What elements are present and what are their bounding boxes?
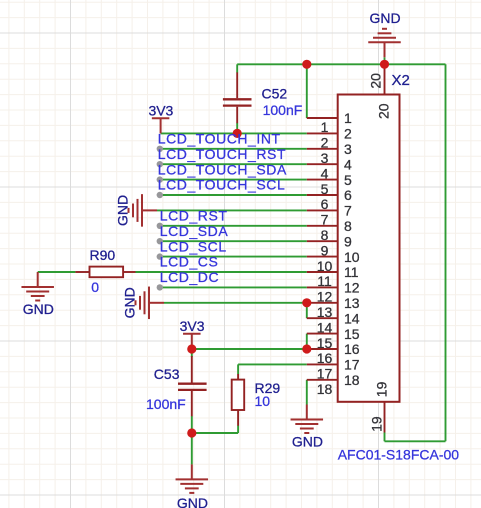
wire R29 bottom wire xyxy=(237,426,239,434)
wire elbow pin 15 to pin 16 xyxy=(306,334,308,349)
wire row 16 3V3 net xyxy=(192,348,307,350)
ground GND left of R90 xyxy=(21,272,54,301)
X2 pin 1 xyxy=(307,110,352,135)
X2 pin 17 xyxy=(307,357,360,382)
X2 pin 8 xyxy=(307,218,352,243)
wire end dot row 12 xyxy=(157,284,163,290)
wire right vertical xyxy=(445,64,447,441)
svg-text:3V3: 3V3 xyxy=(148,103,173,119)
svg-text:12: 12 xyxy=(344,280,360,296)
wire pin 18 elbow to GND xyxy=(306,380,308,405)
power flag 3V3 row 16 xyxy=(183,334,201,349)
junction row 16 at pin elbow xyxy=(302,344,311,353)
wire end dot row 3 xyxy=(157,146,163,152)
wire end dot row 5 xyxy=(157,176,163,182)
resistor R90 xyxy=(75,267,135,278)
svg-text:18: 18 xyxy=(344,372,360,388)
wire row 8 LCD_RST xyxy=(160,225,307,227)
X2 pin 11 xyxy=(307,264,359,289)
svg-text:LCD_TOUCH_INT: LCD_TOUCH_INT xyxy=(158,131,281,147)
wire C53 bottom wire xyxy=(191,416,193,464)
svg-text:LCD_TOUCH_RST: LCD_TOUCH_RST xyxy=(158,146,286,162)
ground GND top (pin 20 net) xyxy=(368,29,401,58)
ground GND row 13 (rotated) xyxy=(136,287,165,320)
X2 pin 3 xyxy=(307,141,352,166)
svg-text:2: 2 xyxy=(344,126,352,142)
wire top GND flag lead xyxy=(384,57,386,64)
ground GND bottom below C53 xyxy=(176,464,209,493)
wire GND top horizontal xyxy=(237,63,445,65)
wire row 10 LCD_SCL xyxy=(160,256,307,258)
svg-text:17: 17 xyxy=(344,357,360,373)
svg-text:3: 3 xyxy=(344,141,352,157)
wire end dot row 4 xyxy=(157,161,163,167)
X2 pin 19 (bottom) xyxy=(369,381,390,432)
svg-text:1: 1 xyxy=(344,110,352,126)
svg-text:GND: GND xyxy=(115,195,131,226)
wire row 17 R29 net xyxy=(238,363,307,365)
svg-text:11: 11 xyxy=(344,264,359,280)
svg-text:8: 8 xyxy=(344,218,352,234)
svg-text:100nF: 100nF xyxy=(263,102,303,118)
svg-text:LCD_DC: LCD_DC xyxy=(160,269,219,285)
svg-text:15: 15 xyxy=(344,326,360,342)
svg-text:GND: GND xyxy=(177,495,208,508)
X2 pin 18 xyxy=(307,372,360,397)
svg-text:LCD_CS: LCD_CS xyxy=(160,254,219,270)
X2 pin 15 xyxy=(307,326,360,351)
resistor R29 xyxy=(232,374,245,426)
X2 pin 20 (top) xyxy=(367,64,391,119)
wire row 7 GND xyxy=(157,209,307,211)
junction C53 bottom xyxy=(187,428,196,437)
wire elbow pin 13 to pin 14 xyxy=(306,303,308,318)
wire end dot row 10 xyxy=(157,253,163,259)
wire end dot row 8 xyxy=(157,223,163,229)
wire row 13 GND xyxy=(164,302,307,304)
svg-text:5: 5 xyxy=(344,172,352,188)
svg-text:0: 0 xyxy=(91,279,99,295)
ground GND row 7 (rotated) xyxy=(129,194,158,227)
ground GND below pin 18 xyxy=(291,405,324,434)
svg-text:7: 7 xyxy=(344,203,352,219)
X2 pin 10 xyxy=(307,249,360,274)
svg-text:100nF: 100nF xyxy=(146,396,186,412)
wire row 11 R90 to pin 11 xyxy=(136,271,307,273)
X2 pin 2 xyxy=(307,126,352,151)
svg-text:13: 13 xyxy=(344,295,360,311)
junction GND top wire at pin 20 xyxy=(380,60,389,69)
svg-text:14: 14 xyxy=(344,310,360,326)
svg-text:LCD_TOUCH_SDA: LCD_TOUCH_SDA xyxy=(158,161,287,177)
X2 pin 6 xyxy=(307,187,352,212)
svg-text:9: 9 xyxy=(344,233,352,249)
wire row 12 LCD_DC xyxy=(160,286,307,288)
junction GND top wire at pin 1 drop xyxy=(302,60,311,69)
connector X2 body xyxy=(338,95,400,402)
svg-text:20: 20 xyxy=(376,103,392,119)
wire end dot row 9 xyxy=(157,238,163,244)
wire pin 1 drop from GND net xyxy=(306,64,308,118)
wire row 3 LCD_TOUCH_INT xyxy=(160,148,307,150)
X2 pin 13 xyxy=(307,295,360,320)
capacitor C53 xyxy=(178,356,207,416)
wire bottom horizontal R29-C53 xyxy=(192,432,238,434)
svg-text:LCD_TOUCH_SCL: LCD_TOUCH_SCL xyxy=(158,177,285,193)
svg-text:6: 6 xyxy=(344,187,352,203)
svg-text:LCD_SCL: LCD_SCL xyxy=(160,238,227,254)
svg-text:GND: GND xyxy=(23,301,54,317)
svg-text:4: 4 xyxy=(344,156,352,172)
wire row 6 LCD_TOUCH_SCL xyxy=(160,194,307,196)
svg-text:19: 19 xyxy=(369,416,385,432)
X2 pin 9 xyxy=(307,233,352,258)
X2 pin 14 xyxy=(307,310,360,335)
junction row 13 GND xyxy=(302,298,311,307)
svg-text:LCD_RST: LCD_RST xyxy=(160,208,228,224)
svg-text:16: 16 xyxy=(344,341,360,357)
svg-text:10: 10 xyxy=(255,393,271,409)
wire row 4 LCD_TOUCH_RST xyxy=(160,163,307,165)
X2 pin 5 xyxy=(307,172,352,197)
wire row 11 GND to R90 xyxy=(38,271,76,273)
svg-text:20: 20 xyxy=(367,73,383,89)
wire row 2 3V3 net xyxy=(161,132,307,134)
svg-text:X2: X2 xyxy=(392,72,410,89)
svg-text:AFC01-S18FCA-00: AFC01-S18FCA-00 xyxy=(338,447,460,463)
X2 pin 4 xyxy=(307,156,352,181)
wire row 5 LCD_TOUCH_SDA xyxy=(160,179,307,181)
wire R29 top elbow xyxy=(237,364,239,374)
X2 pin 7 xyxy=(307,203,352,228)
svg-text:R90: R90 xyxy=(90,247,116,263)
wire C52 top elbow xyxy=(236,64,238,72)
wire row 9 LCD_SDA xyxy=(160,240,307,242)
power flag 3V3 row 2 xyxy=(152,118,170,133)
X2 pin 12 xyxy=(307,280,360,305)
svg-text:GND: GND xyxy=(292,434,323,450)
wire pin 19 riser xyxy=(384,433,386,442)
junction C52 to 3V3 row xyxy=(233,129,242,138)
wire C53 top lead wire xyxy=(191,349,193,357)
wire bottom jog to pin 19 xyxy=(385,440,446,442)
svg-text:GND: GND xyxy=(369,10,400,26)
junction 3V3 row 16 left xyxy=(187,344,196,353)
svg-text:C53: C53 xyxy=(154,366,180,382)
svg-text:GND: GND xyxy=(122,287,138,318)
X2 pin 16 xyxy=(307,341,360,366)
capacitor C52 xyxy=(223,72,252,123)
wire end dot row 6 xyxy=(157,192,163,198)
svg-text:3V3: 3V3 xyxy=(180,318,205,334)
svg-text:19: 19 xyxy=(374,381,390,397)
svg-text:LCD_SDA: LCD_SDA xyxy=(160,223,229,239)
wire C52 bottom to 3V3 net xyxy=(236,123,238,134)
svg-text:10: 10 xyxy=(344,249,360,265)
svg-text:C52: C52 xyxy=(262,85,288,101)
svg-text:18: 18 xyxy=(317,381,333,397)
